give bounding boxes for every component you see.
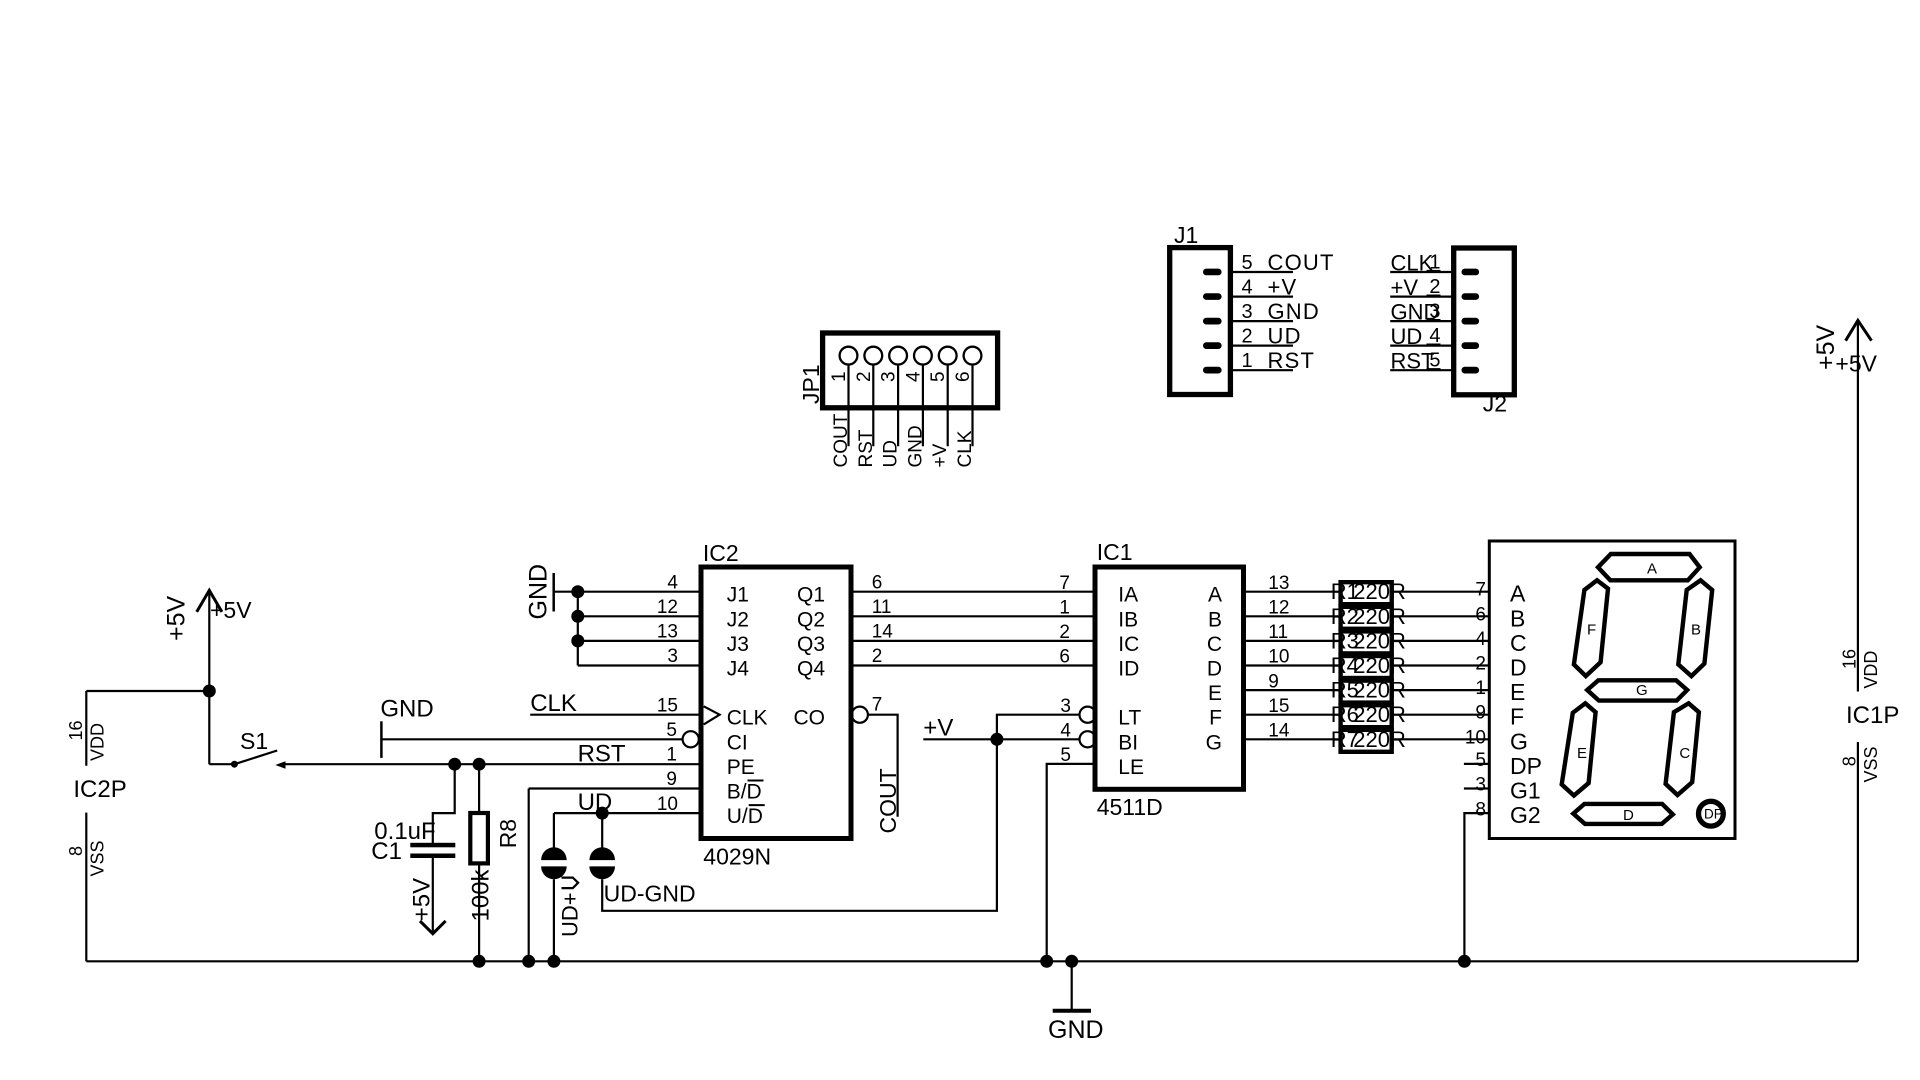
- svg-text:U/D: U/D: [727, 805, 763, 828]
- svg-text:2: 2: [854, 371, 875, 382]
- switch S1: [209, 728, 285, 769]
- svg-text:4029N: 4029N: [703, 844, 771, 870]
- junction J-bus row3: [571, 634, 584, 647]
- svg-text:+V: +V: [930, 443, 951, 467]
- display segment E: [1562, 703, 1596, 795]
- svg-text:CI: CI: [727, 731, 748, 754]
- svg-text:J2: J2: [727, 608, 749, 631]
- display G1 stub: [1464, 787, 1489, 789]
- wire +5V to IC2P VDD: [86, 690, 209, 692]
- svg-text:IC2P: IC2P: [73, 776, 126, 803]
- svg-text:CLK: CLK: [955, 430, 976, 467]
- JP1 pin 5 +V: [928, 347, 956, 468]
- power +5V symbol (left): [163, 590, 253, 764]
- svg-text:+5V: +5V: [1835, 350, 1877, 376]
- wire R6 to display F: [1392, 714, 1490, 716]
- ground GND (IC2 J inputs): [525, 564, 554, 620]
- svg-text:+V: +V: [923, 715, 953, 742]
- svg-text:G: G: [1636, 682, 1648, 699]
- svg-text:5: 5: [928, 371, 949, 382]
- svg-text:B: B: [1510, 605, 1525, 631]
- svg-text:15: 15: [657, 695, 678, 716]
- IC2 pin 7 CO: [794, 695, 883, 730]
- svg-text:8: 8: [1475, 799, 1486, 820]
- IC1 pin 3 LT: [1060, 696, 1141, 730]
- svg-text:CO: CO: [794, 707, 826, 730]
- svg-text:Q4: Q4: [797, 658, 825, 681]
- svg-text:GND: GND: [525, 564, 553, 620]
- svg-text:7: 7: [1059, 573, 1070, 594]
- wire RST to C1: [433, 764, 455, 843]
- IC2 pin 11 Q2: [797, 597, 891, 631]
- connector J2: [1454, 248, 1515, 417]
- svg-text:6: 6: [953, 371, 974, 382]
- display pin 4 C: [1475, 629, 1526, 656]
- svg-text:UD-GND: UD-GND: [604, 881, 696, 907]
- svg-text:A: A: [1208, 584, 1222, 607]
- svg-text:5: 5: [666, 720, 677, 741]
- resistor R1 220R: [1331, 579, 1406, 604]
- svg-text:4: 4: [1242, 277, 1253, 299]
- svg-text:IA: IA: [1118, 584, 1138, 607]
- wire R3 to display C: [1392, 640, 1490, 642]
- svg-text:COUT: COUT: [875, 768, 901, 833]
- svg-text:UD: UD: [881, 440, 902, 467]
- IC2 pin 15 CLK: [657, 695, 768, 729]
- svg-text:6: 6: [1475, 604, 1486, 625]
- display pin 6 B: [1475, 604, 1525, 631]
- svg-text:RST: RST: [1391, 349, 1435, 374]
- ground GND (IC2 CI): [380, 696, 433, 758]
- wire RST net: [285, 740, 701, 767]
- svg-text:+5V: +5V: [409, 878, 436, 921]
- svg-text:10: 10: [657, 794, 678, 815]
- svg-text:6: 6: [872, 572, 883, 593]
- svg-text:D: D: [1510, 655, 1527, 681]
- junction RST/R8: [473, 758, 486, 771]
- svg-text:100k: 100k: [468, 868, 495, 921]
- svg-text:3: 3: [667, 646, 678, 667]
- IC2 pin 2 Q4: [797, 646, 882, 680]
- IC1 pin 6 ID: [1059, 647, 1139, 681]
- svg-text:1: 1: [829, 371, 850, 382]
- solder jumper UD-GND: [589, 847, 695, 906]
- svg-text:ID: ID: [1118, 658, 1139, 681]
- svg-text:F: F: [1209, 707, 1222, 730]
- svg-text:J2: J2: [1483, 391, 1507, 417]
- svg-text:E: E: [1208, 682, 1222, 705]
- wire GND bus to IC2 J1-J4: [554, 592, 701, 666]
- IC1 pin 7 IA: [1059, 573, 1138, 607]
- IC1 pin 5 LE: [1060, 745, 1144, 779]
- junction +V: [990, 733, 1003, 746]
- svg-text:16: 16: [1840, 649, 1860, 669]
- svg-text:Q3: Q3: [797, 633, 825, 656]
- resistor R7 220R: [1331, 727, 1406, 752]
- display segment B: [1678, 580, 1712, 676]
- svg-text:3: 3: [879, 371, 900, 382]
- display segment D: [1573, 804, 1673, 824]
- svg-text:G2: G2: [1510, 802, 1541, 828]
- wire R7 to display G: [1392, 738, 1490, 740]
- svg-text:S1: S1: [240, 728, 268, 754]
- IC U: IC2 4029N body: [701, 540, 851, 869]
- IC2 pin 12 J2: [657, 597, 749, 631]
- svg-text:4: 4: [1475, 629, 1486, 650]
- svg-text:3: 3: [1475, 775, 1486, 796]
- svg-text:E: E: [1510, 679, 1525, 705]
- wire R1 to display A: [1392, 591, 1490, 593]
- svg-text:F: F: [1587, 621, 1596, 638]
- svg-text:B: B: [1691, 621, 1701, 638]
- display segment A: [1598, 554, 1700, 580]
- svg-text:16: 16: [66, 720, 86, 740]
- svg-text:2: 2: [1242, 326, 1253, 348]
- resistor R2 220R: [1331, 604, 1406, 629]
- svg-text:A: A: [1510, 581, 1526, 607]
- IC1 pin 9 E: [1208, 671, 1279, 705]
- resistor R5 220R: [1331, 678, 1406, 703]
- IC1 pin 11 C: [1207, 622, 1288, 656]
- wire IC2 Q2 to IC1 IB: [851, 615, 1095, 617]
- JP1 pin 1 COUT: [829, 347, 857, 468]
- svg-text:7: 7: [872, 695, 883, 716]
- svg-text:RST: RST: [578, 740, 626, 767]
- svg-text:7: 7: [1475, 580, 1486, 601]
- svg-text:R8: R8: [495, 819, 521, 848]
- wire IC1 A to R1: [1244, 591, 1341, 593]
- svg-text:2: 2: [872, 646, 883, 667]
- svg-text:9: 9: [666, 769, 677, 790]
- wire IC1 F to R6: [1244, 714, 1341, 716]
- power +5V symbol (down, at C1): [409, 858, 446, 934]
- wire UD net: [554, 789, 701, 816]
- IC1 pin 10 D: [1207, 647, 1290, 681]
- display pin 2 D: [1475, 654, 1526, 681]
- svg-text:UD: UD: [1268, 324, 1302, 349]
- ground GND (bottom): [1048, 961, 1104, 1044]
- wire jumper UD-GND to +V: [602, 739, 997, 911]
- display DP stub: [1464, 763, 1489, 765]
- svg-text:Q1: Q1: [797, 584, 825, 607]
- svg-text:2: 2: [1059, 622, 1070, 643]
- IC2 pin 10 U/D: [657, 794, 765, 828]
- IC2 pin 1 PE: [666, 745, 754, 779]
- capacitor C1 0.1uF: [371, 818, 455, 865]
- svg-text:13: 13: [657, 622, 678, 643]
- IC1 pin 4 BI: [1060, 721, 1138, 755]
- IC1 pin 15 F: [1209, 696, 1289, 730]
- resistor R6 220R: [1331, 702, 1406, 727]
- J1 pin 4 +V: [1203, 275, 1297, 300]
- junction RST/C1: [448, 758, 461, 771]
- display pin 1 E: [1475, 678, 1525, 705]
- svg-text:1: 1: [1242, 350, 1253, 372]
- wire IC1 LE to GND rail: [1047, 764, 1095, 961]
- svg-text:VDD: VDD: [88, 723, 108, 761]
- svg-text:5: 5: [1475, 750, 1486, 771]
- svg-text:5: 5: [1242, 252, 1253, 274]
- solder jumper UD+U: [541, 847, 582, 937]
- svg-text:6: 6: [1059, 647, 1070, 668]
- svg-text:JP1: JP1: [798, 364, 824, 404]
- svg-text:J1: J1: [727, 584, 749, 607]
- svg-text:+5V: +5V: [163, 595, 191, 641]
- J2 pin 3 GND: [1390, 300, 1479, 325]
- display pin 3 G1: [1475, 775, 1540, 804]
- svg-text:CLK: CLK: [727, 707, 768, 730]
- JP1 pin 3 UD: [879, 347, 907, 468]
- junction R8/GND rail: [473, 955, 486, 968]
- svg-text:A: A: [1647, 560, 1657, 577]
- svg-text:4: 4: [903, 371, 924, 382]
- wire GND rail (bottom): [86, 960, 1858, 962]
- IC2 pin 5 CI: [666, 720, 747, 754]
- display pin 7 A: [1475, 580, 1526, 607]
- IC U: IC1 4511D body: [1095, 539, 1244, 820]
- svg-text:J3: J3: [727, 633, 749, 656]
- svg-text:IB: IB: [1118, 608, 1138, 631]
- display segment G: [1587, 680, 1687, 700]
- connector JP1: [798, 333, 998, 408]
- IC2 pin 9 B/D: [666, 769, 763, 803]
- svg-text:4: 4: [667, 572, 678, 593]
- wire UD to jumper UD+U: [553, 813, 555, 847]
- connector J1: [1170, 222, 1231, 395]
- svg-text:VDD: VDD: [1861, 651, 1881, 689]
- svg-text:D: D: [1623, 807, 1634, 824]
- svg-text:RST: RST: [856, 429, 877, 467]
- svg-text:C: C: [1510, 630, 1527, 656]
- wire IC1 G to R7: [1244, 738, 1341, 740]
- svg-text:PE: PE: [727, 756, 755, 779]
- wire IC1 E to R5: [1244, 689, 1341, 691]
- resistor R8 100k: [468, 764, 522, 961]
- wire IC1 D to R4: [1244, 664, 1341, 666]
- IC2 pin 3 J4: [667, 646, 749, 680]
- wire IC1 LT to +V: [997, 715, 1080, 740]
- svg-text:CLK: CLK: [530, 690, 577, 717]
- junction UD/jumper2: [596, 807, 609, 820]
- J1 pin 1 RST: [1203, 348, 1315, 373]
- svg-text:+V: +V: [1391, 275, 1419, 300]
- junction LE/GND rail: [1040, 955, 1053, 968]
- svg-text:IC: IC: [1118, 633, 1139, 656]
- svg-text:COUT: COUT: [1268, 250, 1335, 275]
- svg-text:DP: DP: [1704, 807, 1723, 822]
- svg-text:IC1: IC1: [1097, 539, 1133, 565]
- svg-text:IC2: IC2: [703, 540, 739, 566]
- wire IC1 C to R3: [1244, 640, 1341, 642]
- resistor R3 220R: [1331, 628, 1406, 653]
- JP1 pin 4 GND: [903, 347, 931, 468]
- svg-text:GND: GND: [1268, 299, 1321, 324]
- svg-text:3: 3: [1242, 301, 1253, 323]
- svg-text:3: 3: [1060, 696, 1071, 717]
- wire IC1 B to R2: [1244, 615, 1341, 617]
- svg-text:B/D: B/D: [727, 781, 762, 804]
- svg-text:+5V: +5V: [210, 597, 252, 623]
- J2 pin 2 +V: [1390, 275, 1479, 300]
- svg-text:CLK: CLK: [1391, 251, 1434, 276]
- svg-text:9: 9: [1475, 703, 1486, 724]
- svg-text:C: C: [1679, 745, 1690, 762]
- svg-text:J1: J1: [1174, 222, 1198, 248]
- svg-text:BI: BI: [1118, 731, 1138, 754]
- junction pin9/GND rail: [522, 955, 535, 968]
- svg-text:C1: C1: [371, 838, 402, 865]
- junction jumper1/GND rail: [547, 955, 560, 968]
- junction GND symbol/rail: [1065, 955, 1078, 968]
- svg-text:LE: LE: [1118, 756, 1144, 779]
- svg-text:VSS: VSS: [1861, 746, 1881, 782]
- svg-text:8: 8: [1840, 756, 1860, 766]
- svg-text:G: G: [1510, 728, 1528, 754]
- junction J-bus row1: [571, 585, 584, 598]
- svg-text:COUT: COUT: [831, 413, 852, 467]
- J1 pin 2 UD: [1203, 324, 1302, 349]
- IC2 pin 14 Q3: [797, 622, 893, 656]
- IC1 pin 2 IC: [1059, 622, 1139, 656]
- IC2 pin 6 Q1: [797, 572, 882, 606]
- svg-text:E: E: [1577, 745, 1587, 762]
- svg-text:GND: GND: [380, 696, 433, 723]
- wire jumper UD+U to GND rail: [553, 879, 555, 961]
- wire CLK net: [530, 690, 701, 717]
- svg-text:B: B: [1208, 608, 1222, 631]
- svg-text:14: 14: [872, 622, 894, 643]
- wire R4 to display D: [1392, 664, 1490, 666]
- svg-text:LT: LT: [1118, 707, 1141, 730]
- JP1 pin 2 RST: [854, 347, 882, 468]
- svg-text:4: 4: [1060, 721, 1071, 742]
- junction G2/GND rail: [1458, 955, 1471, 968]
- wire IC2 B/D pin9 to GND rail: [529, 789, 701, 962]
- J2 pin 5 RST: [1390, 349, 1479, 374]
- svg-text:D: D: [1207, 658, 1222, 681]
- svg-text:C: C: [1207, 633, 1222, 656]
- wire GND to IC2 CI: [381, 738, 682, 740]
- display segment DP: [1699, 801, 1724, 826]
- svg-text:UD+: UD+: [558, 892, 583, 937]
- wire IC2 Q1 to IC1 IA: [851, 591, 1095, 593]
- JP1 pin 6 CLK: [953, 347, 981, 468]
- svg-text:IC1P: IC1P: [1846, 702, 1899, 729]
- display pin 5 DP: [1475, 750, 1542, 779]
- display segment F: [1574, 580, 1608, 676]
- junction +5V / IC2P VDD: [203, 685, 216, 698]
- wire IC2 Q4 to IC1 ID: [851, 664, 1095, 666]
- svg-text:RST: RST: [1268, 348, 1316, 373]
- power pins IC2P: [66, 691, 127, 961]
- resistor R4 220R: [1331, 653, 1406, 678]
- power pins IC1P: [1840, 649, 1900, 961]
- IC1 pin 1 IB: [1059, 598, 1138, 632]
- wire IC2 Q3 to IC1 IC: [851, 640, 1095, 642]
- J2 pin 4 UD: [1390, 324, 1479, 349]
- svg-text:2: 2: [1475, 654, 1486, 675]
- svg-text:J4: J4: [727, 658, 750, 681]
- 7-segment display body: [1489, 541, 1735, 839]
- power +5V symbol (right): [1812, 320, 1878, 691]
- wire R2 to display B: [1392, 615, 1490, 617]
- svg-text:12: 12: [657, 597, 678, 618]
- wire UD to jumper UD-GND: [601, 813, 603, 847]
- display segment C: [1666, 703, 1699, 795]
- display pin 9 F: [1475, 703, 1524, 730]
- svg-text:4511D: 4511D: [1097, 794, 1163, 820]
- wire COUT net: [868, 715, 901, 834]
- svg-text:UD: UD: [1391, 324, 1423, 349]
- display pin 10 G: [1465, 727, 1528, 754]
- IC1 pin 14 G: [1206, 721, 1290, 755]
- svg-text:1: 1: [666, 745, 677, 766]
- svg-text:DP: DP: [1510, 753, 1542, 779]
- svg-text:VSS: VSS: [88, 840, 108, 876]
- svg-text:10: 10: [1465, 727, 1486, 748]
- svg-text:1: 1: [1475, 678, 1486, 699]
- IC2 pin 13 J3: [657, 622, 749, 656]
- IC1 pin 12 B: [1208, 598, 1289, 632]
- svg-text:8: 8: [66, 846, 86, 856]
- J2 pin 1 CLK: [1390, 251, 1479, 276]
- wire display G2 to GND rail: [1464, 813, 1489, 961]
- junction J-bus row2: [571, 610, 584, 623]
- J1 pin 3 GND: [1203, 299, 1320, 324]
- IC1 pin 13 A: [1208, 573, 1289, 607]
- wire R5 to display E: [1392, 689, 1490, 691]
- svg-text:G: G: [1206, 731, 1222, 754]
- J1 pin 5 COUT: [1203, 250, 1335, 275]
- svg-text:11: 11: [872, 597, 892, 618]
- svg-text:F: F: [1510, 704, 1524, 730]
- svg-text:G1: G1: [1510, 778, 1541, 804]
- svg-text:GND: GND: [905, 425, 926, 467]
- display pin 8 G2: [1475, 799, 1540, 828]
- svg-text:1: 1: [1059, 598, 1070, 619]
- IC2 pin 4 J1: [667, 572, 748, 606]
- wire +V net to IC1 BI: [923, 715, 1079, 742]
- svg-text:Q2: Q2: [797, 608, 825, 631]
- svg-text:+V: +V: [1268, 275, 1298, 300]
- svg-text:GND: GND: [1048, 1016, 1104, 1044]
